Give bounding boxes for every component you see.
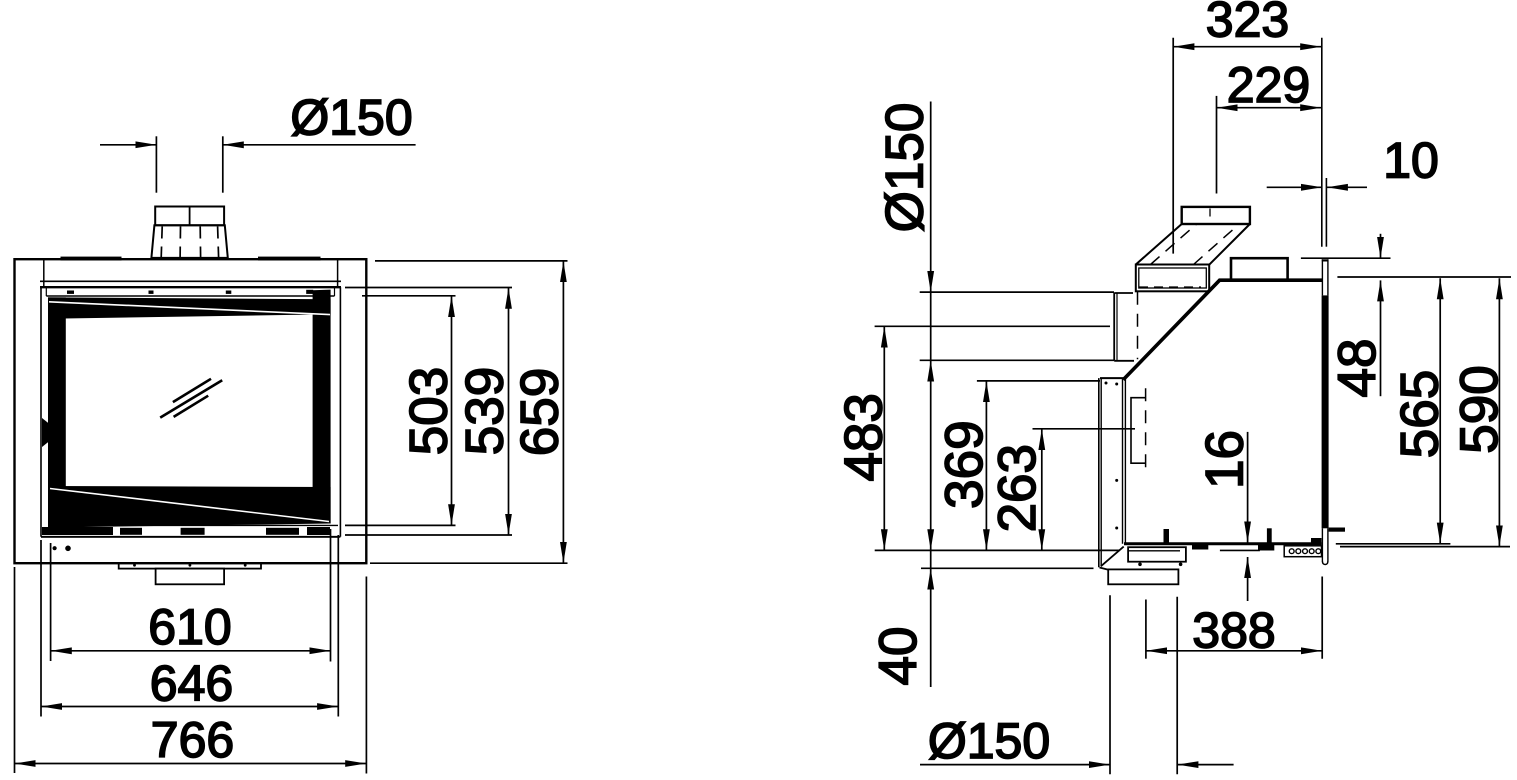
- rear bottom corner diagonal: [1101, 547, 1124, 567]
- rear outlet stub left inner edge: [1116, 293, 1118, 361]
- inner rail side left: [45, 287, 47, 296]
- dim 590: extension line bottom: [1340, 546, 1510, 548]
- dim Ø150 front: dimension line: [100, 144, 156, 146]
- dim 10: dimension line: [1267, 186, 1322, 188]
- rear outlet stub hidden right edge: [1137, 292, 1139, 360]
- angled duct hidden pipe line 2: [1194, 226, 1238, 265]
- rear wall bolts: [1105, 382, 1119, 530]
- ash drawer box: [1128, 547, 1186, 562]
- under-door ledge line: [48, 524, 338, 526]
- dim 565: dimension line: [1439, 278, 1441, 543]
- angled duct left edge: [1136, 224, 1182, 265]
- dim Ø150 rear outlet: dimension line with stacked 40 dim: [930, 102, 932, 293]
- top rail clip marks: [67, 290, 313, 294]
- rear wall inner face second line: [1124, 378, 1126, 544]
- dim 646: extension lines: [40, 540, 42, 717]
- front frame foot channel right: [1327, 528, 1329, 561]
- svg-text:Ø150: Ø150: [928, 713, 1050, 769]
- angled duct right edge: [1209, 224, 1250, 265]
- rear wall outer face: [1098, 378, 1100, 567]
- dim 263: dimension line: [1041, 429, 1043, 550]
- dim 369: dimension line: [985, 381, 987, 550]
- svg-text:590: 590: [1450, 365, 1509, 453]
- rear wall outer face inner line: [1100, 378, 1102, 566]
- dim 610: extension lines: [50, 543, 52, 661]
- baseline extension line under body: [875, 549, 1120, 551]
- screw dot left: [53, 546, 57, 550]
- inner rail side right: [334, 287, 336, 296]
- svg-text:48: 48: [1328, 339, 1387, 398]
- screw dot right: [65, 546, 71, 552]
- floor inner short line: [1220, 549, 1260, 551]
- dim 48: dimension line: [1380, 234, 1382, 258]
- dim Ø150 bottom: extension lines: [1109, 595, 1111, 774]
- dim Ø150 front: extension lines: [155, 136, 157, 192]
- floor stud bolt 2: [1267, 528, 1272, 544]
- dim 40: lower extension line: [921, 567, 1094, 569]
- dim 369: extension line: [977, 380, 1100, 382]
- svg-text:263: 263: [988, 444, 1047, 532]
- inner top rail line: [46, 295, 334, 297]
- rear outlet stub left edge: [1113, 293, 1115, 361]
- front frame bar (glass edge): [1322, 295, 1329, 528]
- dim 539: dimension line: [508, 288, 510, 535]
- dim 610: dimension line: [51, 650, 331, 652]
- angled duct hidden pipe line 1: [1151, 225, 1197, 265]
- floor foot block 2: [1258, 543, 1274, 551]
- dim 659: extension lines: [375, 260, 568, 262]
- svg-text:483: 483: [834, 393, 893, 481]
- svg-text:16: 16: [1196, 430, 1255, 489]
- face plate left edge: [40, 287, 42, 537]
- casing-to-faceplate connector left: [43, 259, 45, 287]
- under-door fastener strip: [42, 527, 330, 535]
- front body plane upper line: [1325, 178, 1327, 247]
- svg-text:659: 659: [511, 368, 570, 456]
- casing-to-faceplate connector right: [337, 259, 339, 287]
- internal baffle bracket: [1131, 398, 1146, 464]
- svg-text:229: 229: [1227, 57, 1310, 113]
- svg-text:503: 503: [399, 367, 458, 455]
- flue collar body: [151, 225, 227, 258]
- door top band highlight line: [49, 302, 330, 315]
- top mounting tab right: [258, 257, 321, 261]
- svg-text:766: 766: [151, 712, 234, 768]
- bottom plate rivets: [133, 564, 247, 567]
- face plate bottom edge: [41, 536, 340, 538]
- internal baffle hidden line: [1145, 388, 1147, 472]
- door frame left band: [48, 297, 66, 530]
- front frame foot channel left: [1321, 528, 1323, 561]
- flue collar cap split line: [189, 207, 191, 226]
- rear shoulder line: [1100, 377, 1125, 379]
- grille screws: [1311, 540, 1320, 543]
- front frame channel cap: [1322, 259, 1329, 261]
- glass pane reflection lines: [160, 379, 222, 418]
- svg-text:369: 369: [935, 420, 994, 508]
- front frame foot rounded end: [1322, 561, 1328, 565]
- svg-text:10: 10: [1383, 133, 1439, 189]
- svg-text:323: 323: [1206, 0, 1289, 48]
- fresh air spigot (front): [156, 569, 225, 585]
- convection grille box: [1284, 546, 1321, 557]
- dim Ø150 rear outlet: extension lines: [920, 291, 1114, 293]
- door frame top band: [48, 297, 331, 318]
- dim 48: extension lines: [1301, 257, 1391, 259]
- top mounting tab left: [61, 257, 122, 261]
- svg-text:Ø150: Ø150: [290, 90, 412, 146]
- rear wall inner face: [1122, 378, 1124, 544]
- flue collar cap: [155, 207, 224, 226]
- outer casing frame: [15, 259, 367, 563]
- floor block near front: [1311, 538, 1322, 544]
- ash lip bottom line: [41, 536, 338, 538]
- svg-text:388: 388: [1192, 603, 1275, 659]
- dim 590: dimension line: [1498, 278, 1500, 546]
- svg-text:565: 565: [1391, 370, 1450, 458]
- svg-text:539: 539: [456, 367, 515, 455]
- grille circles: [1289, 549, 1320, 554]
- fresh air spigot (side): [1108, 569, 1178, 584]
- rear flue collar inner: [1139, 268, 1207, 288]
- dim 646: dimension line: [41, 706, 338, 708]
- door frame right band: [313, 290, 331, 524]
- floor foot block 1: [1192, 543, 1208, 550]
- front frame channel right: [1327, 259, 1329, 295]
- rear bottom edge: [1100, 568, 1109, 570]
- flue collar ribs: [161, 227, 218, 258]
- dim 323: extension lines: [1172, 38, 1174, 254]
- rear outlet stub bottom edge: [1114, 360, 1134, 362]
- front frame plane upper line: [1321, 38, 1323, 247]
- dim 16: dimension line: [1247, 432, 1249, 543]
- dim Ø150 bottom: dimension line: [920, 764, 1110, 766]
- duct cap: [1182, 207, 1250, 224]
- dim 263: extension line: [1033, 428, 1136, 430]
- front frame tab: [1329, 528, 1345, 532]
- dim 503: extension lines: [362, 295, 456, 297]
- dim 766: extension lines: [14, 567, 16, 773]
- dim 483: dimension line: [883, 327, 885, 551]
- top outlet stub: [1231, 258, 1288, 280]
- floor line: [1124, 542, 1322, 545]
- dim 539: extension lines: [345, 287, 512, 289]
- dim 766: dimension line: [15, 763, 367, 765]
- svg-text:40: 40: [869, 627, 928, 686]
- dim 659: dimension line: [562, 261, 564, 563]
- bottom connector plate: [119, 563, 261, 568]
- dim 229: dimension line: [1217, 107, 1322, 109]
- dim 565: extension line bottom: [1336, 543, 1451, 545]
- door frame bottom band: [48, 486, 331, 528]
- door hinge wedge left: [42, 418, 50, 447]
- front frame channel left: [1321, 259, 1323, 295]
- door bottom band highlight line: [50, 489, 329, 522]
- svg-text:Ø150: Ø150: [876, 103, 935, 233]
- face plate top edge: [40, 286, 341, 288]
- floor stud bolt 1: [1164, 529, 1170, 544]
- upper plate line: [40, 280, 341, 282]
- rear flue collar hidden line: [1139, 286, 1201, 288]
- dim 503: dimension line: [451, 296, 453, 525]
- body top edge and slanted rear: [1123, 280, 1323, 380]
- face plate right edge: [339, 287, 341, 537]
- ash drawer inner line: [1128, 550, 1180, 552]
- duct cap hidden line: [1209, 209, 1211, 223]
- rear flue collar outer: [1136, 265, 1209, 292]
- dim 323: dimension line: [1173, 46, 1321, 48]
- svg-text:610: 610: [148, 599, 231, 655]
- dim 388: dimension line: [1146, 650, 1322, 652]
- rear outlet stub top edge: [1114, 292, 1133, 294]
- dim 388: extension lines: [1145, 600, 1147, 659]
- svg-text:646: 646: [150, 656, 233, 712]
- ash drawer feet: [1138, 563, 1182, 567]
